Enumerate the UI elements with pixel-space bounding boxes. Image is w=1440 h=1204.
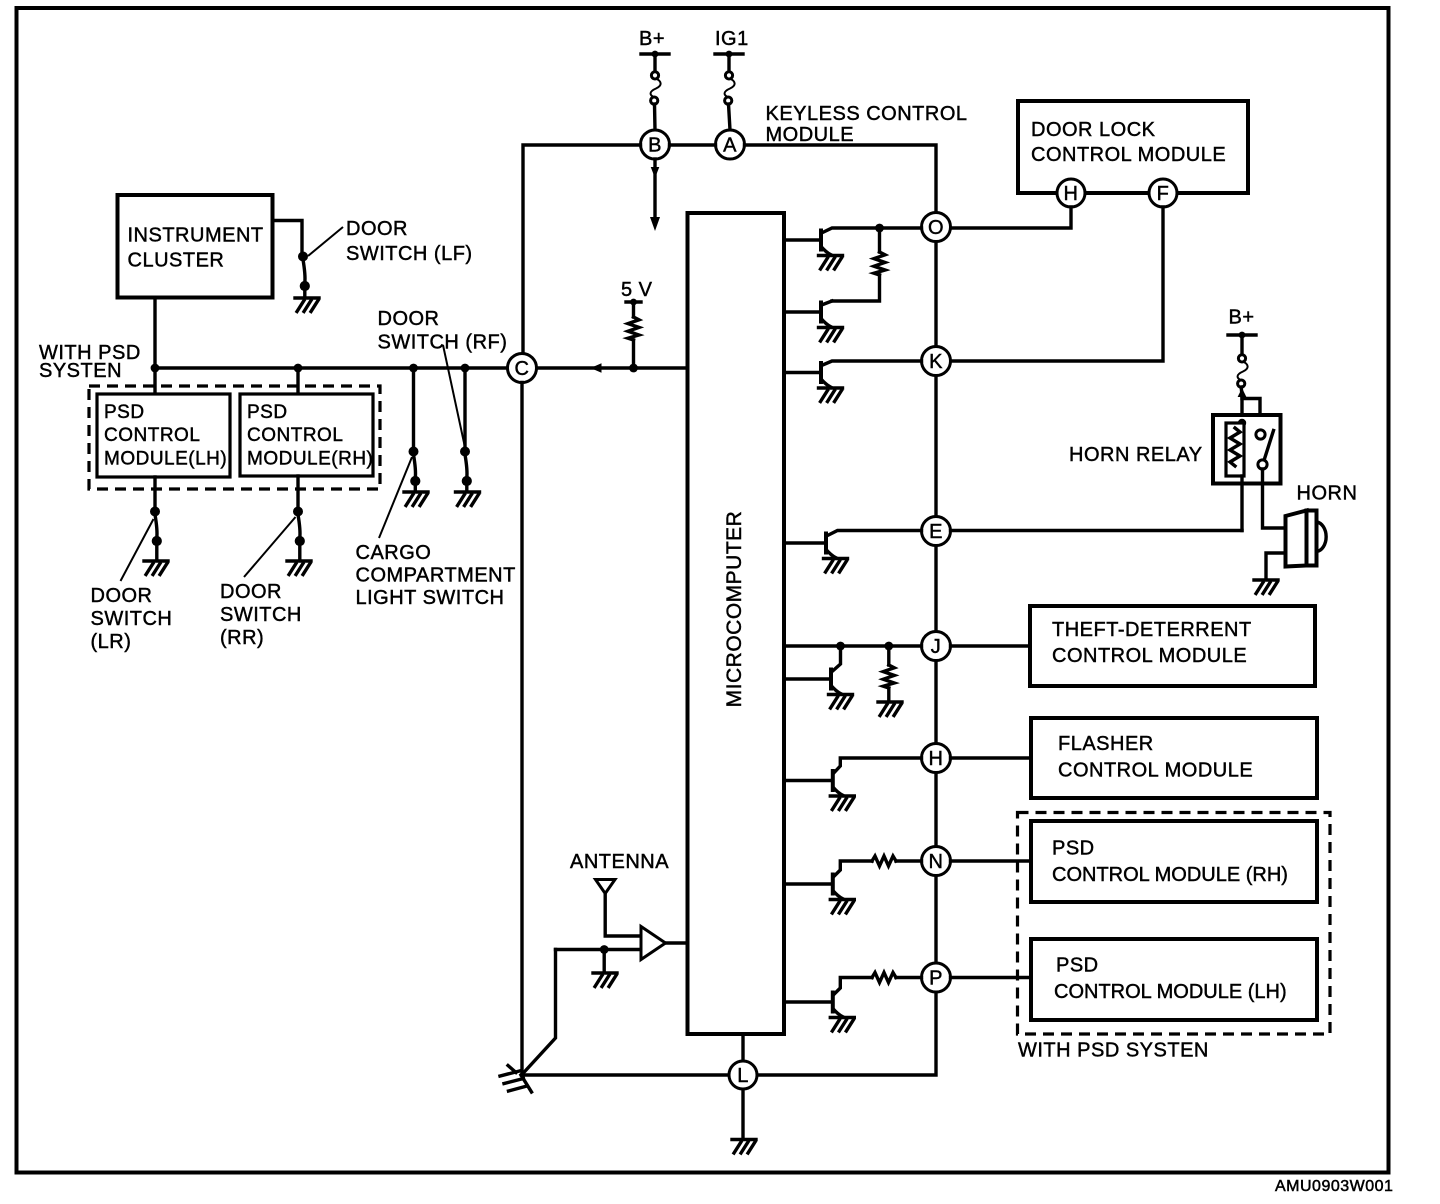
svg-text:CONTROL MODULE (RH): CONTROL MODULE (RH)	[1052, 864, 1288, 886]
svg-text:O: O	[928, 217, 944, 239]
svg-text:DOOR: DOOR	[220, 581, 282, 603]
svg-text:CONTROL MODULE (LH): CONTROL MODULE (LH)	[1054, 981, 1287, 1003]
svg-text:DOOR: DOOR	[378, 308, 440, 330]
svg-text:FLASHER: FLASHER	[1058, 733, 1154, 755]
svg-text:DOOR: DOOR	[91, 585, 153, 607]
svg-text:F: F	[1157, 183, 1170, 205]
svg-text:PSD: PSD	[1056, 955, 1099, 977]
svg-text:P: P	[929, 968, 943, 990]
svg-text:E: E	[929, 521, 943, 543]
svg-text:HORN RELAY: HORN RELAY	[1069, 444, 1203, 466]
svg-text:H: H	[1064, 183, 1079, 205]
svg-text:SWITCH: SWITCH	[91, 608, 173, 630]
svg-text:CONTROL MODULE: CONTROL MODULE	[1058, 760, 1253, 782]
svg-text:COMPARTMENT: COMPARTMENT	[356, 565, 516, 587]
svg-text:B+: B+	[1229, 307, 1255, 329]
svg-text:K: K	[929, 351, 943, 373]
svg-text:MICROCOMPUTER: MICROCOMPUTER	[723, 511, 746, 708]
svg-text:(LR): (LR)	[91, 631, 132, 653]
svg-text:MODULE(LH): MODULE(LH)	[104, 449, 227, 470]
svg-text:(RR): (RR)	[220, 627, 264, 649]
svg-text:THEFT-DETERRENT: THEFT-DETERRENT	[1052, 619, 1252, 641]
svg-text:N: N	[929, 851, 944, 873]
svg-text:HORN: HORN	[1297, 483, 1358, 505]
svg-text:B: B	[648, 135, 662, 157]
svg-text:MODULE(RH): MODULE(RH)	[247, 449, 373, 470]
svg-text:CONTROL: CONTROL	[104, 425, 200, 446]
svg-text:IG1: IG1	[715, 28, 749, 50]
svg-text:SWITCH: SWITCH	[220, 604, 302, 626]
svg-text:AMU0903W001: AMU0903W001	[1275, 1178, 1393, 1195]
svg-text:PSD: PSD	[1052, 838, 1095, 860]
svg-text:LIGHT SWITCH: LIGHT SWITCH	[356, 587, 505, 609]
svg-text:CONTROL MODULE: CONTROL MODULE	[1052, 645, 1247, 667]
svg-text:B+: B+	[639, 28, 665, 50]
svg-text:CLUSTER: CLUSTER	[128, 250, 225, 272]
svg-text:SWITCH (LF): SWITCH (LF)	[346, 243, 473, 265]
svg-text:SYSTEN: SYSTEN	[39, 360, 122, 382]
svg-text:C: C	[515, 358, 530, 380]
svg-text:A: A	[723, 135, 737, 157]
svg-text:L: L	[737, 1065, 749, 1087]
svg-text:CONTROL: CONTROL	[247, 425, 343, 446]
svg-text:H: H	[929, 748, 944, 770]
svg-text:SWITCH (RF): SWITCH (RF)	[378, 332, 508, 354]
svg-text:J: J	[931, 636, 942, 658]
svg-text:ANTENNA: ANTENNA	[570, 851, 669, 873]
svg-text:CONTROL MODULE: CONTROL MODULE	[1031, 144, 1226, 166]
svg-text:MODULE: MODULE	[766, 124, 855, 146]
svg-text:5 V: 5 V	[621, 279, 653, 301]
svg-text:PSD: PSD	[104, 402, 145, 423]
svg-text:INSTRUMENT: INSTRUMENT	[128, 225, 264, 247]
svg-text:DOOR: DOOR	[346, 218, 408, 240]
svg-text:WITH PSD SYSTEN: WITH PSD SYSTEN	[1018, 1040, 1209, 1062]
svg-text:DOOR LOCK: DOOR LOCK	[1031, 119, 1156, 141]
svg-text:CARGO: CARGO	[356, 542, 432, 564]
svg-text:KEYLESS CONTROL: KEYLESS CONTROL	[766, 103, 968, 125]
svg-text:PSD: PSD	[247, 402, 288, 423]
